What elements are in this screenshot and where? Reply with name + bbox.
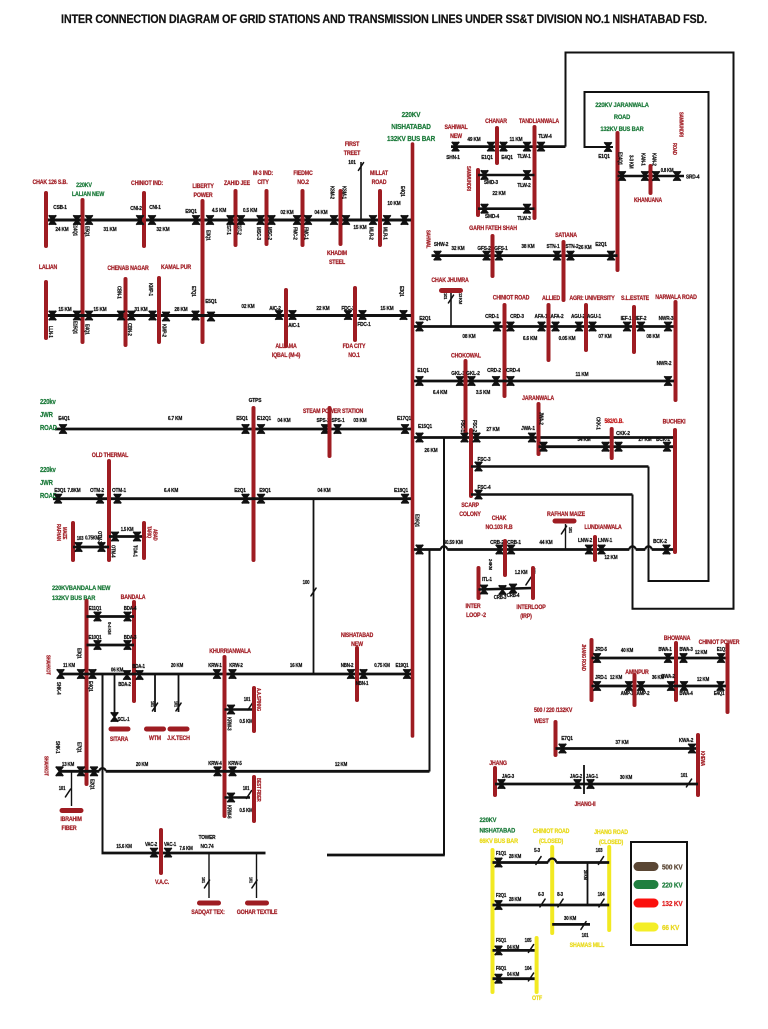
svg-text:KHANUANA: KHANUANA [634,198,662,204]
svg-text:ROAD: ROAD [40,425,57,433]
svg-text:SHN-1: SHN-1 [446,155,460,161]
feeder GOHAR TEXTILE [256,853,258,898]
svg-text:E2Q1: E2Q1 [419,316,431,322]
svg-text:04 KM: 04 KM [314,210,327,216]
wire shahkot 20KM row [59,770,99,773]
svg-text:CHAK: CHAK [492,516,507,522]
svg-text:IEF-2: IEF-2 [636,316,647,322]
svg-text:LALIAN: LALIAN [39,265,57,271]
wire row2 [46,314,411,317]
svg-text:22 KM: 22 KM [316,306,329,312]
svg-text:E9Q1: E9Q1 [185,209,197,215]
svg-text:KHEWA: KHEWA [700,751,705,767]
svg-text:STN-1: STN-1 [547,244,560,250]
svg-text:OTF: OTF [532,996,543,1002]
svg-text:M-3 IND:: M-3 IND: [253,171,273,177]
svg-text:ROAD: ROAD [372,180,387,186]
svg-text:E3Q1: E3Q1 [54,488,66,494]
svg-text:CRD-2: CRD-2 [487,368,501,374]
svg-text:KMP-1: KMP-1 [147,283,153,296]
svg-text:JAG-2: JAG-2 [570,774,583,780]
svg-text:103: 103 [596,848,603,854]
wire crb-bucheki row [414,548,441,551]
svg-text:02 KM: 02 KM [241,304,254,310]
svg-text:SHW-2: SHW-2 [434,242,449,248]
svg-text:MAIZE: MAIZE [62,527,67,539]
svg-text:5-3: 5-3 [534,848,540,854]
svg-text:COLONY: COLONY [459,512,481,518]
svg-text:7.6 KM: 7.6 KM [179,846,192,852]
svg-text:101: 101 [150,701,155,708]
svg-text:12 KM: 12 KM [695,650,707,656]
svg-text:FMC-2: FMC-2 [291,227,297,240]
svg-text:GFS-2: GFS-2 [477,246,490,252]
wire shamas mill 30KM [552,923,590,926]
svg-text:INTER: INTER [466,604,482,610]
svg-text:22 KM: 22 KM [492,191,505,197]
svg-text:FIRST: FIRST [345,142,360,148]
svg-text:IQBAL (M-4): IQBAL (M-4) [272,353,301,359]
svg-text:7.8KM: 7.8KM [67,488,80,494]
svg-text:IBRAHIM: IBRAHIM [60,817,82,823]
feeder KRW-6 BEST FIBER [225,796,251,799]
svg-text:LUNDIANWALA: LUNDIANWALA [584,525,621,531]
svg-text:12 KM: 12 KM [604,555,617,561]
svg-text:E2Q1: E2Q1 [595,242,607,248]
svg-text:JAG-1: JAG-1 [586,774,599,780]
svg-text:SAHIWAL: SAHIWAL [444,125,468,131]
bus bar NISHATABAD 132KV [411,144,415,736]
svg-text:32 KM: 32 KM [451,246,464,252]
svg-text:28 KM: 28 KM [583,870,588,880]
bus SCARP COLONY [469,430,473,496]
svg-text:E1Q1: E1Q1 [417,368,429,374]
svg-text:E12Q1: E12Q1 [257,416,271,422]
svg-text:LALIAN NEW: LALIAN NEW [72,192,105,198]
svg-text:101: 101 [59,786,66,791]
svg-text:SAMMUNDRI: SAMMUNDRI [678,112,683,137]
svg-text:NBN-2: NBN-2 [341,663,354,669]
svg-text:E5Q1: E5Q1 [236,416,248,422]
svg-text:E15Q1: E15Q1 [71,321,77,334]
svg-text:(CLOSED): (CLOSED) [599,840,623,846]
svg-text:3.5 KM: 3.5 KM [476,390,490,396]
wire 26KM feeder [443,438,445,856]
svg-text:TOWER: TOWER [199,835,216,841]
svg-text:FIEDMC: FIEDMC [293,171,312,177]
bus bar NISHATABAD 66KV yellow [491,850,495,992]
svg-text:20 KM: 20 KM [136,762,148,768]
svg-text:LNW-2: LNW-2 [578,538,592,544]
svg-text:E3Q1: E3Q1 [398,286,404,297]
svg-text:KSM-1: KSM-1 [340,186,346,199]
bus KHANUANA [649,166,653,193]
svg-text:101: 101 [173,701,178,708]
svg-text:FSC-2: FSC-2 [471,420,477,432]
svg-text:101: 101 [348,160,356,166]
svg-text:E5Q1: E5Q1 [83,226,89,237]
svg-text:E4Q1: E4Q1 [399,186,405,197]
svg-text:JHANG ROAD: JHANG ROAD [594,830,628,836]
svg-text:FDC-1: FDC-1 [357,322,370,328]
wire E10Q1-BDA3 [87,644,135,647]
svg-text:66 KV: 66 KV [662,925,680,933]
bus KHEWA [696,735,700,795]
svg-text:15 KM: 15 KM [353,225,366,231]
svg-text:ZGT-1: ZGT-1 [225,223,231,235]
svg-text:11 KM: 11 KM [63,663,75,669]
svg-text:NO.1: NO.1 [348,353,361,359]
svg-text:KRW-6: KRW-6 [225,805,231,819]
wire 34KM row to BUCHEKI [539,445,675,448]
svg-text:0-4 KM: 0-4 KM [107,622,112,635]
svg-text:101: 101 [582,933,589,939]
svg-text:MLR-2: MLR-2 [367,227,373,240]
svg-text:BHOWANA: BHOWANA [664,636,691,642]
wire VAC riser [102,674,104,853]
svg-text:CHINIOT ROAD: CHINIOT ROAD [533,829,570,835]
svg-text:SCARP: SCARP [461,503,479,509]
svg-text:220kv: 220kv [40,399,56,407]
svg-text:TLW-4: TLW-4 [538,134,552,140]
svg-text:13 KM: 13 KM [62,762,74,768]
svg-text:CHINIOT IND:: CHINIOT IND: [131,181,163,187]
svg-text:27 KM: 27 KM [486,427,499,433]
svg-text:STEEL: STEEL [329,260,346,266]
wire jaranwala-sammundri road row y=176 [618,175,685,178]
svg-text:E1Q1: E1Q1 [598,154,610,160]
svg-text:SADQAT TEX:: SADQAT TEX: [191,910,225,916]
wire jhangroad row1 40KM [592,657,727,660]
svg-text:37 KM: 37 KM [615,740,628,746]
svg-text:6.6 KM: 6.6 KM [523,336,537,342]
svg-text:220 KV: 220 KV [662,882,683,890]
svg-text:132KV BUS BAR: 132KV BUS BAR [600,126,644,134]
svg-text:FSC-1: FSC-1 [459,420,465,432]
svg-text:10 KM: 10 KM [387,201,400,207]
wire sahiwalnew-tandlianwala row [451,145,566,148]
svg-text:F2Q1: F2Q1 [496,893,507,899]
svg-text:100: 100 [303,580,310,586]
svg-text:BCK-2: BCK-2 [653,539,667,545]
svg-text:04 KM: 04 KM [507,972,519,978]
svg-text:0.75 KM: 0.75 KM [374,663,390,669]
svg-text:CHAK JHUMRA: CHAK JHUMRA [431,278,468,284]
svg-text:E14Q1: E14Q1 [71,223,77,236]
wire F1Q1 28KM row [493,861,549,864]
svg-text:132KV BUS BAR: 132KV BUS BAR [52,595,96,603]
svg-text:30 KM: 30 KM [564,916,576,922]
svg-text:08 KM: 08 KM [462,334,475,340]
svg-text:28 KM: 28 KM [509,897,521,903]
svg-text:SATIANA: SATIANA [555,233,577,239]
svg-text:101: 101 [244,697,251,702]
bus KHADIM STEEL [339,191,343,244]
wire 66kv tie vertical [587,863,589,906]
svg-text:F5Q1: F5Q1 [496,938,507,944]
legend 132 KV [638,899,654,908]
svg-text:E4Q1: E4Q1 [58,416,70,422]
svg-text:AGU-1: AGU-1 [587,314,601,320]
svg-text:105: 105 [525,938,532,944]
svg-text:FMC-1: FMC-1 [302,227,308,240]
svg-text:32 KM: 32 KM [156,227,169,233]
svg-text:E7Q1: E7Q1 [190,286,196,297]
svg-text:MSC-3: MSC-3 [255,227,261,240]
wire jhang-II tap [583,765,585,794]
wire F5Q1 04KM [493,949,537,952]
svg-text:E2Q1: E2Q1 [234,488,246,494]
svg-text:0.5 KM: 0.5 KM [239,719,252,725]
bus bar BANDALA NEW [85,601,89,784]
wire garh-fateh-shah row [432,254,618,257]
svg-text:500 / 220 /132KV: 500 / 220 /132KV [534,708,573,714]
svg-text:132KV BUS BAR: 132KV BUS BAR [387,136,435,144]
svg-text:CBN-2: CBN-2 [126,323,132,336]
svg-text:TREET: TREET [344,151,361,157]
svg-text:38 KM: 38 KM [521,244,534,250]
svg-text:TARIQ: TARIQ [146,526,151,539]
svg-text:JRD-5: JRD-5 [595,647,607,653]
svg-text:NISHATABAD: NISHATABAD [480,827,516,835]
svg-text:101: 101 [248,877,253,884]
svg-text:TLW-2: TLW-2 [517,183,531,189]
svg-text:27 KM: 27 KM [638,437,651,443]
svg-text:KSM-2: KSM-2 [328,186,334,199]
svg-text:SAMMUNDRI: SAMMUNDRI [466,166,471,191]
svg-text:AMP-2: AMP-2 [637,691,650,697]
svg-text:JARANWALA: JARANWALA [522,396,554,402]
svg-text:12 KM: 12 KM [610,675,622,681]
svg-text:500 KV: 500 KV [662,864,683,872]
svg-text:NWR-3: NWR-3 [659,316,674,322]
svg-text:6.4 KM: 6.4 KM [164,488,178,494]
svg-text:NO.103 R.B: NO.103 R.B [486,525,513,531]
svg-text:KRW-1: KRW-1 [208,663,222,669]
svg-text:OTM-4: OTM-4 [110,545,115,558]
wire interloop row [479,588,534,590]
svg-text:E3Q1: E3Q1 [204,230,210,241]
svg-text:12 KM: 12 KM [697,677,709,683]
feeder SITARA [114,674,116,714]
svg-text:26 KM: 26 KM [424,448,437,454]
svg-text:15.6 KM: 15.6 KM [116,844,132,850]
svg-text:E19Q1: E19Q1 [396,663,409,669]
svg-text:CHINIOT POWER: CHINIOT POWER [699,640,741,646]
svg-text:220KV: 220KV [402,112,421,120]
svg-text:03 KM: 03 KM [353,418,366,424]
svg-text:AMP-1: AMP-1 [621,691,634,697]
svg-text:WTM: WTM [149,736,161,742]
svg-text:INTERLOOP: INTERLOOP [516,605,546,611]
svg-text:TOA-1: TOA-1 [132,545,137,557]
svg-text:13 KM: 13 KM [458,293,463,305]
svg-text:E3Q1: E3Q1 [75,648,81,659]
svg-text:0.05 KM: 0.05 KM [559,336,576,342]
svg-text:66KV BUS BAR: 66KV BUS BAR [480,839,519,845]
svg-text:(IRP): (IRP) [520,614,532,620]
svg-text:4.5 KM: 4.5 KM [212,208,226,214]
svg-text:VAC-2: VAC-2 [145,842,158,848]
svg-text:220KV JARANWALA: 220KV JARANWALA [595,102,649,110]
svg-text:AFA-2: AFA-2 [551,314,564,320]
svg-text:28 KM: 28 KM [509,854,521,860]
svg-text:101: 101 [681,773,688,779]
svg-text:ITL-1: ITL-1 [482,577,492,583]
wire smd-4 TLW-3 [478,207,535,210]
svg-text:CHINIOT ROAD: CHINIOT ROAD [493,295,530,301]
svg-text:SHAHKOT: SHAHKOT [43,756,48,776]
svg-text:KRW-4: KRW-4 [208,761,222,767]
svg-text:30 KM: 30 KM [620,775,632,781]
svg-text:SCL-1: SCL-1 [118,717,130,723]
svg-text:CKK-2: CKK-2 [616,431,630,437]
svg-text:101: 101 [201,877,206,884]
svg-text:CRD-3: CRD-3 [510,314,524,320]
svg-text:JHANG ROAD: JHANG ROAD [581,644,586,672]
wire chiniot-road row [414,325,674,328]
svg-text:11 KM: 11 KM [510,137,523,143]
svg-text:1.5 KM: 1.5 KM [121,527,134,532]
svg-text:CRB-3: CRB-3 [494,595,507,601]
wire 100 riser [313,499,315,674]
svg-text:220KVBANDALA NEW: 220KVBANDALA NEW [52,585,110,593]
svg-text:0.5 KM: 0.5 KM [239,808,252,814]
svg-text:582/G.B.: 582/G.B. [605,419,625,425]
svg-text:CRD-1: CRD-1 [485,314,499,320]
svg-text:BWA-3: BWA-3 [679,647,693,653]
svg-text:JWA-2: JWA-2 [537,412,543,425]
svg-text:132 KV: 132 KV [662,901,683,909]
svg-text:BWA-2: BWA-2 [661,674,675,680]
bus TARIQ ABAD [142,523,146,558]
svg-text:6-3: 6-3 [538,892,544,898]
legend 66 KV [638,923,654,932]
svg-text:CHAK 126 S.B.: CHAK 126 S.B. [33,180,68,186]
svg-text:KRW-2: KRW-2 [229,663,243,669]
svg-text:24 KM: 24 KM [55,227,68,233]
svg-text:04 KM: 04 KM [317,488,330,494]
svg-text:TLW-1: TLW-1 [517,154,531,160]
svg-text:KRW-3: KRW-3 [225,717,231,731]
svg-text:STN-2: STN-2 [566,244,579,250]
svg-text:CBN-1: CBN-1 [115,286,121,299]
svg-text:JWR: JWR [40,480,53,488]
svg-text:KHADIM: KHADIM [327,251,347,257]
feeder IBRAHIM FIBER [71,771,73,806]
svg-text:SHAHKOT: SHAHKOT [45,655,50,675]
svg-text:BDA-4: BDA-4 [124,606,137,612]
svg-text:103: 103 [77,536,84,541]
svg-text:40 KM: 40 KM [621,648,633,654]
svg-text:SPS-1: SPS-1 [332,418,345,424]
svg-text:FIBER: FIBER [62,826,78,832]
svg-text:CSB-1: CSB-1 [53,205,67,211]
svg-text:2-9KM: 2-9KM [488,559,493,570]
svg-text:ABAD: ABAD [152,529,157,541]
svg-text:E9Q1: E9Q1 [259,488,271,494]
svg-text:31 KM: 31 KM [134,307,147,313]
svg-text:LOOP -2: LOOP -2 [466,613,486,619]
svg-text:34 KM: 34 KM [577,437,590,443]
wire smd-3 TLW-2 [478,174,535,177]
svg-text:IEF-1: IEF-1 [621,316,632,322]
svg-text:(CLOSED): (CLOSED) [539,839,563,845]
svg-text:CHANAR: CHANAR [485,119,508,125]
svg-text:E4Q1: E4Q1 [501,155,513,161]
svg-text:E2Q1: E2Q1 [88,779,94,790]
wire E11Q1-BDA4 [87,615,135,618]
svg-text:KHURRIANWALA: KHURRIANWALA [209,649,251,655]
svg-text:3-3 KM: 3-3 KM [627,155,633,169]
wire oldthermal-tariqabad 1.5KM [109,535,144,538]
svg-text:KRW-5: KRW-5 [228,761,242,767]
svg-text:E11Q1: E11Q1 [89,606,102,612]
svg-text:SRD-4: SRD-4 [686,174,700,180]
svg-text:ALLIED: ALLIED [542,296,560,302]
svg-text:E15Q1: E15Q1 [418,424,432,430]
svg-text:KAN-1: KAN-1 [639,153,645,166]
svg-text:WEST: WEST [534,719,549,725]
svg-text:SAHIWAL: SAHIWAL [425,230,430,249]
svg-text:JHANG: JHANG [489,761,507,767]
svg-text:1.2 KM: 1.2 KM [515,570,528,575]
svg-text:KAMAL PUR: KAMAL PUR [161,265,192,271]
svg-text:NO.74: NO.74 [201,844,214,850]
svg-text:OLD THERMAL: OLD THERMAL [92,453,129,459]
bus A.A.SPINNING [252,688,256,731]
svg-text:104: 104 [598,892,605,898]
svg-text:04 KM: 04 KM [277,418,290,424]
bus bar JARANWALA ROAD [616,133,620,270]
svg-text:AMINPUR: AMINPUR [625,670,649,676]
svg-text:MILLAT: MILLAT [370,171,389,177]
wire row4 JWR-OLDTHERMAL [53,497,411,500]
svg-text:BANDALA: BANDALA [121,595,146,601]
svg-text:RAFHAN MAIZE: RAFHAN MAIZE [547,512,585,518]
svg-text:06 KM: 06 KM [111,667,123,673]
svg-text:CHENAB NAGAR: CHENAB NAGAR [107,266,149,272]
svg-text:NEW: NEW [450,134,462,140]
svg-text:SHK-4: SHK-4 [55,682,61,695]
svg-text:8-3: 8-3 [557,892,563,898]
svg-text:FDA CITY: FDA CITY [343,344,366,350]
wire F2Q1 28KM row [493,904,610,907]
svg-text:CRD-4: CRD-4 [506,368,520,374]
svg-text:MSC-2: MSC-2 [266,227,272,240]
wire rafhan-oldthermal 0.75KM [73,546,109,549]
svg-text:ZAHID JEE: ZAHID JEE [224,181,250,187]
wire 12KM riser [429,550,431,772]
svg-text:AIC-1: AIC-1 [288,323,300,329]
legend 500 KV [638,862,654,871]
svg-text:LNW-1: LNW-1 [598,538,612,544]
svg-text:44 KM: 44 KM [539,540,552,546]
svg-text:E5Q1: E5Q1 [205,299,217,305]
svg-text:SMD-3: SMD-3 [484,180,498,186]
svg-text:NWR-2: NWR-2 [657,361,672,367]
svg-text:BWA-4: BWA-4 [679,691,693,697]
svg-text:49 KM: 49 KM [467,137,480,143]
svg-text:AFA-1: AFA-1 [535,314,548,320]
svg-text:E4Q1: E4Q1 [87,681,93,692]
svg-text:11 KM: 11 KM [576,372,589,378]
svg-text:BUCHEKI: BUCHEKI [663,419,686,425]
svg-text:MLR-1: MLR-1 [381,227,387,240]
svg-text:101: 101 [243,786,250,791]
svg-text:NO.2: NO.2 [297,180,309,186]
legend 220 KV [638,880,654,889]
